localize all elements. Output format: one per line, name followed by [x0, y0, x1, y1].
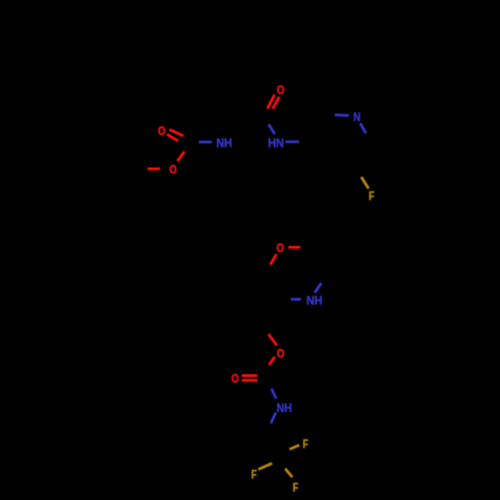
svg-text:F: F [251, 468, 257, 482]
bond N4-C(aryl) up-right (blue half) [315, 283, 322, 293]
bond N5-CH2 (blue half) [271, 412, 276, 423]
bond O4-CH2 down-left (red half) [270, 254, 276, 264]
svg-text:O: O [231, 371, 239, 385]
svg-text:O: O [276, 241, 284, 255]
svg-text:NH: NH [216, 136, 232, 150]
svg-text:F: F [293, 481, 299, 495]
svg-text:O: O [169, 162, 177, 176]
bond C-F2 (goldenrod half) [290, 445, 300, 449]
bond C(=O)-N5 (blue half) [271, 389, 276, 399]
bond C=O1 double, line 2 (red half) [167, 134, 178, 141]
svg-text:NH: NH [306, 294, 322, 308]
bond C=O6 double, lower line (red half) [242, 379, 258, 382]
svg-text:F: F [369, 189, 375, 203]
bond C=O3 double, left line (red half) [267, 95, 274, 109]
bond C=O6 double, upper line (red half) [242, 374, 258, 377]
svg-text:NH: NH [277, 401, 293, 415]
bond C-N1 (blue half) [199, 141, 212, 144]
bond C3-F1 (goldenrod half) [361, 177, 368, 189]
svg-text:O: O [277, 347, 285, 361]
svg-text:O: O [158, 124, 166, 138]
svg-text:O: O [277, 83, 285, 97]
bond C=O3 double, right line (red half) [273, 97, 280, 109]
bond N3-C6 ring bond (blue half) [335, 114, 349, 117]
bond O2-C(tBu) (red half) [148, 167, 161, 170]
bond N2-C(=O) (blue half) [269, 124, 275, 134]
bond O5-C(=O) down-left (red half) [269, 357, 275, 365]
bond N3=C2 ring bond (blue half) [360, 123, 366, 133]
bond N4-C left (blue half) [291, 298, 301, 301]
bond C-F3 (goldenrod half) [258, 463, 272, 469]
svg-text:N: N [353, 110, 360, 124]
svg-text:HN: HN [268, 136, 284, 150]
bond C-F4 (goldenrod half) [285, 469, 292, 478]
bond O5-CH2 up-left (red half) [269, 334, 278, 345]
bond C-O2 (red half, to carbonyl carbon) [178, 152, 185, 162]
bond O4-C(aryl) right (red half) [288, 246, 300, 249]
svg-text:F: F [303, 437, 309, 451]
bond C=O1 double, line 1 (red half) [170, 130, 184, 137]
bond N2-CH2 (blue half) [285, 140, 299, 143]
